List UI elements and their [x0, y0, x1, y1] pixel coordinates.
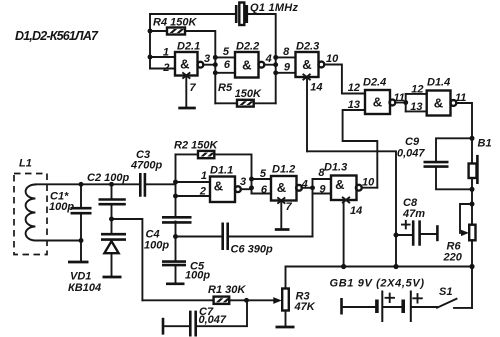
gate D1.2 [271, 176, 302, 203]
svg-text:100p: 100p [185, 270, 210, 282]
terminal bar GB1 left [340, 298, 343, 315]
svg-text:D2.4: D2.4 [363, 77, 386, 89]
capacitor C7 plates [190, 311, 195, 337]
arrowhead R1 wiper into R3 [273, 297, 282, 304]
svg-text:R1 30K: R1 30K [208, 284, 246, 296]
svg-text:КВ104: КВ104 [68, 282, 101, 294]
wire D1.2 pin 6 [252, 193, 272, 195]
ground bar under D1.2 pin 7 [275, 228, 290, 231]
node C9 bottom [470, 187, 475, 192]
wire top rail left of crystal Q1 [150, 13, 236, 15]
svg-text:47K: 47K [294, 301, 316, 313]
node D1.1 pin1 tap [173, 180, 178, 185]
svg-text:7: 7 [286, 201, 293, 213]
svg-text:5: 5 [223, 46, 230, 58]
svg-text:12: 12 [348, 82, 360, 94]
wire D1.4 output to B1 node [456, 103, 472, 138]
supply rail VDD [286, 266, 473, 268]
wire D1.2 input strap [251, 179, 253, 194]
ground bar under VD1 [103, 276, 122, 279]
wire D2.3 pin 8 [276, 56, 296, 58]
svg-text:8: 8 [318, 167, 325, 179]
svg-text:0,047: 0,047 [397, 148, 425, 160]
svg-text:2: 2 [162, 62, 169, 74]
svg-text:7: 7 [190, 82, 197, 94]
plus sign GB1 cell 1 [386, 294, 395, 302]
wire S1 fixed contact [454, 307, 472, 309]
capacitor C9 plates [424, 162, 449, 167]
svg-text:9: 9 [284, 62, 291, 74]
svg-text:4: 4 [301, 179, 308, 191]
capacitor C2 plates [99, 200, 126, 205]
node C6 branch [173, 234, 178, 239]
battery GB1 cell 2 long plate [410, 291, 412, 323]
svg-text:&: & [180, 57, 189, 72]
wire GB1 left lead [342, 306, 377, 308]
svg-text:&: & [335, 177, 344, 192]
wire D2.4 pin 13 to D1.3 output [343, 110, 378, 188]
wire R4 right to D2.2 input strap [185, 31, 215, 103]
node strap D2.2 pin6 [213, 70, 218, 75]
node D1.2 strap mid [249, 185, 254, 190]
varicap VD1 diode triangle [104, 241, 118, 253]
wire VD1 cathode stem [111, 253, 113, 276]
svg-text:D2.3: D2.3 [296, 41, 319, 53]
node C1 top [79, 182, 84, 187]
wire D2.4 output to D1.4 strap [395, 102, 405, 104]
wire varicap node to VD1 plates [111, 219, 113, 233]
wire C1 column [80, 184, 82, 261]
gate D1.3 [331, 176, 362, 203]
wire R5 right lead [254, 102, 276, 104]
wire D1.1 input column [175, 154, 177, 216]
svg-text:3: 3 [240, 176, 246, 188]
svg-text:2: 2 [199, 186, 206, 198]
capacitor C8 plates [413, 220, 419, 245]
wire C7 left lead [163, 325, 189, 327]
wire D1.3 pin 9 [313, 193, 332, 195]
node D1.1 pin2 tap [173, 194, 178, 199]
ground bar under C5 [166, 282, 185, 285]
node R4 tap [148, 29, 153, 34]
svg-text:D1.4: D1.4 [427, 77, 450, 89]
svg-text:&: & [277, 180, 286, 195]
svg-text:&: & [242, 57, 251, 72]
wire B1 column [471, 138, 473, 224]
node R1-C7 junction [244, 298, 249, 303]
wire R1 right to R3 wiper [229, 299, 274, 301]
wire R6 wiper arm [460, 204, 472, 233]
wire crystal right to pin8 strap of D2.3 [247, 14, 276, 103]
node rail right end [469, 264, 474, 269]
gate D1.4 [427, 91, 457, 116]
wire D1.1 pin 2 [176, 195, 211, 197]
wire R4 left branch [150, 30, 167, 32]
dashed screen box around L1 [14, 174, 47, 255]
plus sign GB1 cell 2 [413, 294, 422, 302]
node C8 left [394, 233, 399, 238]
svg-text:10: 10 [326, 53, 339, 65]
wire C3 right to D1.1 column [145, 183, 175, 185]
node D1.3 strap pin9 [310, 185, 315, 190]
ground bar under R3 [276, 326, 295, 329]
wire D1.3 pin 8 [313, 178, 332, 180]
svg-text:S1: S1 [439, 286, 452, 298]
node strap D2.2 pin5 [213, 55, 218, 60]
svg-text:D2.1: D2.1 [177, 41, 200, 53]
wire C4-C5 column [175, 222, 177, 284]
inductor L1 coil [26, 185, 36, 241]
node strap D2.3 pin9 [273, 70, 278, 75]
wire L1 bottom lead [35, 240, 81, 242]
wire D2.1 pin 1 [150, 56, 175, 58]
svg-text:100p: 100p [49, 201, 74, 213]
gate D2.3 [296, 52, 325, 80]
node rail supply vertical [393, 264, 398, 269]
earphone B1 side bar [476, 155, 479, 184]
svg-text:5: 5 [260, 168, 267, 180]
wire C8 right lead to open bar [421, 233, 437, 235]
wire C8 supply decoupling left lead [396, 234, 412, 236]
wire R3 top lead from rail [285, 267, 287, 289]
svg-text:&: & [373, 95, 382, 110]
resistor R1 30K [214, 297, 231, 304]
svg-text:D2.2: D2.2 [236, 41, 259, 53]
wire D1.2 pin 5 [252, 178, 272, 180]
node varicap branch [109, 217, 114, 222]
resistor R4 150K [167, 28, 185, 35]
gate D1.1 [210, 177, 241, 203]
capacitor C5 plates [162, 262, 186, 266]
wire C9 branch top [436, 138, 472, 161]
svg-text:C2 100p: C2 100p [87, 172, 129, 184]
wire D1.1 pin 1 [176, 181, 211, 183]
wire R5 left lead [215, 102, 237, 104]
svg-text:13: 13 [410, 101, 422, 113]
crystal Q1 body [239, 3, 244, 26]
wire D1.4 pin 12 [406, 93, 427, 95]
varicap VD1 capacitor plates [101, 234, 126, 239]
capacitor C4 plates [162, 217, 192, 222]
node D1.4 strap mid [403, 100, 408, 105]
svg-text:12: 12 [411, 84, 423, 96]
wire GB1 right lead to S1 [411, 306, 437, 308]
wire C2 column into varicap node [111, 184, 113, 219]
node strap D2.2 mid [213, 62, 218, 67]
wire C6 right lead up to D1.3 input [229, 236, 313, 238]
switch S1 lever [437, 299, 457, 308]
svg-text:100p: 100p [144, 240, 169, 252]
resistor R2 150K [198, 151, 215, 158]
svg-text:D1,D2-К561ЛА7: D1,D2-К561ЛА7 [15, 29, 99, 43]
svg-text:R4 150K: R4 150K [153, 17, 197, 29]
svg-text:1: 1 [201, 170, 207, 182]
svg-text:3: 3 [204, 53, 210, 65]
wire C6 left lead [176, 236, 222, 238]
wire D1.4 input strap [405, 94, 407, 112]
node C1 bottom [79, 238, 84, 243]
ground bar under D2.1 pin 7 [178, 107, 196, 110]
node strap D2.3 pin8 [273, 55, 278, 60]
wire D2.3 output down to D2.4 pin 12 [324, 65, 365, 94]
battery GB1 cell 1 short plate [375, 300, 379, 314]
node B1 top [470, 136, 475, 141]
node C2 top [109, 182, 114, 187]
plus sign C8 polarity [402, 221, 410, 229]
wire C7 right lead up to R1 node [197, 300, 247, 326]
svg-text:4: 4 [265, 53, 272, 65]
wire D2.2 pin 5 [215, 56, 235, 58]
svg-text:220: 220 [443, 252, 463, 264]
svg-text:9: 9 [319, 183, 326, 195]
wire D2.3 pin 14 stem down [306, 77, 308, 151]
svg-text:47m: 47m [402, 208, 425, 220]
wire R6 bottom to rail and S1 [471, 240, 473, 308]
svg-text:&: & [214, 178, 223, 193]
svg-text:6: 6 [261, 184, 268, 196]
arrowhead R6 wiper [461, 230, 469, 236]
wire D1.3 pin 14 stem to rail [343, 200, 345, 267]
svg-text:0,047: 0,047 [199, 314, 227, 326]
svg-text:D1.2: D1.2 [272, 164, 295, 176]
wire L1 top lead to D1.1 input [35, 183, 140, 185]
svg-text:C6 390p: C6 390p [231, 244, 273, 256]
gate D2.4 [365, 90, 395, 114]
wire D2.1 output to strap [203, 64, 215, 66]
svg-text:L1: L1 [19, 158, 32, 170]
wire R3 bottom lead [285, 311, 287, 327]
node D2.1 pin1 tap [148, 55, 153, 60]
wire C9 branch bottom [436, 168, 472, 190]
ground bar under C1 [68, 261, 89, 264]
wire GB1 middle lead [383, 306, 403, 308]
wire R2 feedback top [176, 154, 252, 179]
svg-text:10: 10 [362, 176, 375, 188]
svg-text:6: 6 [224, 59, 231, 71]
wire D1.1 output to D1.2 strap [241, 188, 252, 190]
svg-text:GB1 9V (2X4,5V): GB1 9V (2X4,5V) [330, 278, 425, 290]
wire D1.2 pin 7 stem [280, 201, 282, 229]
svg-text:R5: R5 [218, 82, 233, 94]
svg-text:D1.3: D1.3 [324, 162, 347, 174]
wire D1.4 pin 13 [406, 110, 427, 112]
terminal bar C8 right [436, 225, 439, 241]
wire D2.2 output to strap [264, 64, 275, 66]
node rail pin14 D1.3 [341, 264, 346, 269]
svg-text:11: 11 [455, 92, 466, 104]
wire left vertical to D2.1 inputs [149, 14, 151, 69]
svg-text:11: 11 [394, 92, 405, 104]
gate D2.2 [235, 52, 264, 78]
svg-text:150K: 150K [235, 88, 262, 100]
svg-text:&: & [434, 96, 443, 111]
wire D2.2 pin 6 [215, 72, 235, 74]
wire pin14 net to supply vertical [307, 151, 396, 266]
wire D2.1 pin 2 [150, 68, 175, 70]
wire D2.3 pin 9 [276, 72, 296, 74]
gate D2.1 (NAND K561LA7) [175, 52, 203, 78]
svg-text:VD1: VD1 [70, 271, 91, 283]
svg-text:D1.1: D1.1 [210, 165, 233, 177]
earphone B1 body [469, 164, 477, 179]
svg-text:8: 8 [283, 46, 290, 58]
svg-text:14: 14 [350, 205, 362, 217]
svg-text:4700p: 4700p [130, 160, 162, 172]
battery GB1 cell 1 long plate [381, 291, 383, 323]
svg-text:C9: C9 [405, 136, 420, 148]
node R6 wiper branch [470, 202, 475, 207]
svg-text:&: & [302, 57, 311, 72]
rheostat R6 220 body [469, 225, 475, 241]
node D1.2 strap pin5 [249, 177, 254, 182]
capacitor C1 plates [71, 208, 92, 213]
svg-text:B1: B1 [478, 138, 492, 150]
svg-text:Q1 1MHz: Q1 1MHz [250, 2, 299, 14]
capacitor C3 plates [140, 173, 145, 197]
wire R1 row from C4 branch [142, 299, 213, 301]
battery GB1 cell 2 short plate [401, 300, 405, 314]
capacitor C6 plates [223, 223, 228, 251]
wire C7 left terminal bar [162, 318, 165, 335]
wire D1.3 input strap down to C6 [312, 179, 314, 237]
potentiometer R3 47K body [282, 289, 289, 311]
crystal Q1 plates [236, 5, 247, 23]
svg-text:13: 13 [348, 99, 360, 111]
svg-text:R2 150K: R2 150K [174, 140, 218, 152]
wire D2.1 pin 7 stem [185, 76, 187, 108]
wire D1.3 output lead [362, 187, 378, 189]
wire varicap node branch to R1 row [112, 219, 143, 300]
wire D1.2 output to D1.3 strap [301, 187, 312, 189]
node strap D2.3 mid [273, 62, 278, 67]
svg-text:14: 14 [310, 82, 322, 94]
resistor R5 150K [237, 100, 254, 107]
svg-text:1: 1 [163, 47, 169, 59]
